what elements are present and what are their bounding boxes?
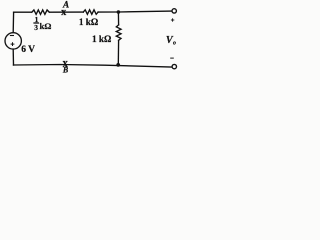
- junction node top: [117, 10, 121, 14]
- wire to top-right terminal: [98, 10, 171, 13]
- svg-text:kΩ: kΩ: [40, 21, 52, 31]
- source plus mark: [11, 42, 15, 46]
- resistor R3 (1 kOhm vertical): [116, 25, 121, 40]
- resistor R1 (1/3 kOhm): [32, 10, 50, 15]
- wire source bottom lead: [12, 50, 14, 65]
- plus sign output: [171, 18, 174, 21]
- svg-text:A: A: [62, 0, 69, 10]
- svg-text:1 kΩ: 1 kΩ: [92, 34, 111, 44]
- svg-text:3: 3: [34, 23, 38, 32]
- resistor R2 (1 kOhm horizontal): [83, 10, 98, 15]
- resistor R3 top lead: [117, 12, 119, 25]
- resistor R3 bottom lead: [117, 40, 119, 65]
- terminal bottom-right: [172, 64, 176, 68]
- svg-text:B: B: [62, 66, 69, 75]
- minus sign output: [170, 57, 174, 59]
- svg-text:1 kΩ: 1 kΩ: [79, 17, 98, 27]
- svg-text:6 V: 6 V: [21, 45, 35, 55]
- source minus mark: [10, 35, 14, 37]
- wire top-left segment: [14, 11, 32, 13]
- wire A segment: [49, 11, 83, 13]
- wire source top lead: [12, 12, 14, 32]
- junction node bottom: [116, 63, 120, 67]
- svg-text:o: o: [173, 40, 176, 46]
- wire bottom rail: [14, 65, 172, 68]
- terminal top-right: [172, 9, 176, 13]
- source V1 circle: [5, 33, 21, 49]
